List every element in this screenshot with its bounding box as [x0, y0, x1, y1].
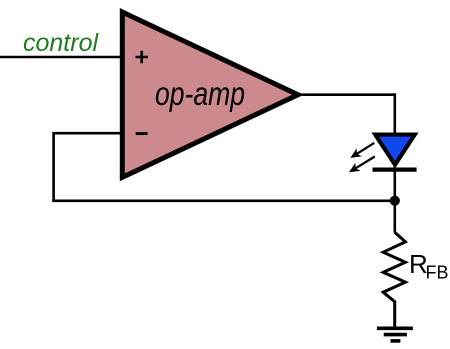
- op-amp U1: [122, 12, 298, 177]
- wire: op-amp output horizontal: [298, 93, 396, 96]
- node junction dot: [390, 196, 400, 206]
- LED D1 cathode bar: [373, 168, 417, 172]
- op-amp - pin: [136, 132, 148, 135]
- wire: feedback left vertical: [52, 132, 55, 202]
- ground symbol: [377, 328, 413, 341]
- svg-text:FB: FB: [426, 263, 449, 283]
- svg-text:op-amp: op-amp: [155, 75, 245, 112]
- svg-text:control: control: [23, 29, 99, 57]
- wire: right vertical through LED and down to resistor: [393, 93, 396, 232]
- wire: inverting input horizontal: [54, 132, 122, 135]
- wire: control input to op-amp +: [0, 56, 122, 59]
- LED D1 body: [375, 135, 415, 165]
- resistor RFB zigzag: [383, 232, 405, 301]
- LED light arrow 2: [349, 157, 375, 173]
- LED light arrow 1: [350, 143, 374, 158]
- op-amp + pin: [136, 51, 148, 64]
- wire: feedback bottom horizontal: [52, 200, 395, 203]
- wire: resistor to ground: [393, 301, 396, 329]
